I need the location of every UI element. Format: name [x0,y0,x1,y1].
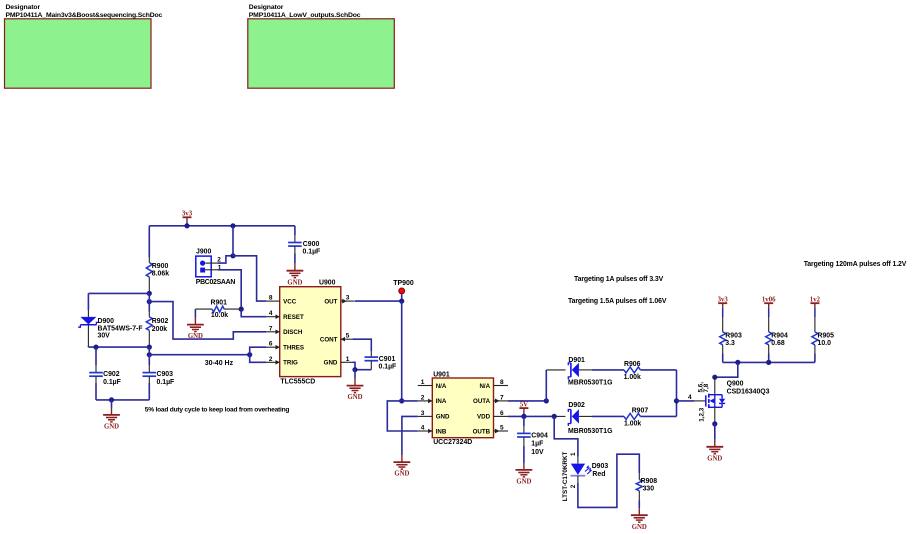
wire U901 GND [402,416,418,455]
wire R906 right [640,369,676,371]
svg-text:R906: R906 [624,361,641,368]
wire drain bus [723,361,815,363]
resistor R901 [195,308,212,310]
junction gate [674,398,679,403]
svg-text:Targeting 120mA pulses off 1.2: Targeting 120mA pulses off 1.2V [804,261,907,268]
wire VDD net [508,415,554,417]
svg-text:RESET: RESET [283,314,304,321]
svg-text:BAT54WS-7-F: BAT54WS-7-F [98,325,143,332]
svg-text:C901: C901 [379,356,396,363]
svg-text:THRES: THRES [283,345,304,352]
svg-text:3v3: 3v3 [182,211,193,218]
wire DISCH net [149,302,266,340]
power port 3v3 [186,217,188,222]
wire TP900 vertical [401,301,403,401]
svg-text:4: 4 [421,425,425,432]
svg-text:PBC02SAAN: PBC02SAAN [196,279,236,286]
wire to gate [677,400,695,402]
node TRIG branch [147,352,152,357]
junction drain [712,375,717,380]
svg-text:Q900: Q900 [727,381,744,388]
svg-text:1v2: 1v2 [810,296,821,303]
node R900 bottom [147,291,152,296]
svg-text:R902: R902 [152,318,169,325]
svg-text:GND: GND [324,360,338,367]
wire gate vertical [676,370,678,417]
svg-text:R905: R905 [818,333,835,340]
ground R908 [638,508,640,515]
wire 555 GND pin [353,362,355,369]
junction 5V [521,414,526,419]
junction C902 top [93,345,98,350]
svg-text:1.00k: 1.00k [624,420,641,427]
svg-text:UCC27324D: UCC27324D [433,439,472,446]
svg-text:INA: INA [436,398,447,405]
diode D902 MBR0530T1G [554,415,565,417]
svg-text:8: 8 [269,295,273,302]
svg-text:D902: D902 [568,402,585,409]
svg-text:1: 1 [570,452,577,456]
svg-text:MBR0530T1G: MBR0530T1G [568,380,612,387]
svg-text:GND: GND [516,479,531,486]
svg-text:N/A: N/A [479,383,490,390]
svg-text:C900: C900 [303,241,320,248]
wire C903 top [148,347,150,365]
svg-text:0.1µF: 0.1µF [303,249,321,256]
svg-text:C904: C904 [531,432,548,439]
svg-text:MBR0530T1G: MBR0530T1G [568,428,612,435]
resistor R900 [146,263,152,278]
resistor R902 [146,317,152,331]
wire D902-R907 [592,415,624,417]
wire VCC net [233,256,266,301]
svg-text:Designator: Designator [249,4,284,11]
wire INA-INB loop [387,401,418,431]
svg-text:5: 5 [346,333,350,340]
svg-text:6: 6 [269,341,273,348]
capacitor C901 [353,339,372,351]
wire OUTA net [508,400,546,402]
wire to TRIG [250,355,266,363]
svg-text:7,8: 7,8 [703,383,710,392]
ground C904 [523,463,525,470]
diode D903 LED [577,457,579,464]
wire R900 top [148,226,150,258]
svg-text:10V: 10V [531,449,544,456]
svg-text:C903: C903 [157,371,174,378]
svg-text:5% load duty cycle to keep loa: 5% load duty cycle to keep load from ove… [145,407,290,414]
connector J900 PBC02SAAN [196,256,211,277]
svg-text:3: 3 [346,295,350,302]
svg-text:10.0k: 10.0k [211,312,228,319]
svg-text:R908: R908 [641,478,658,485]
svg-text:GND: GND [394,471,409,478]
test point TP900 [401,294,403,301]
svg-text:CONT: CONT [320,337,338,344]
svg-text:PMP10411A_LowV_outputs.SchDoc: PMP10411A_LowV_outputs.SchDoc [249,12,361,19]
svg-text:7: 7 [500,394,504,401]
power port 1v06 [768,303,770,308]
svg-text:TRIG: TRIG [283,360,298,367]
svg-text:OUT: OUT [324,298,337,305]
diode D900 BAT54WS [87,310,89,317]
op-amp U900 TLC555CD [280,287,341,377]
wire INA [402,400,418,402]
svg-text:Targeting 1.5A pulses off 1.06: Targeting 1.5A pulses off 1.06V [568,298,667,305]
ground Q900 [714,424,716,440]
ground R901 [194,309,196,318]
svg-text:3v3: 3v3 [718,296,729,303]
svg-text:30V: 30V [98,333,111,340]
wire drain drop [715,362,738,377]
svg-text:3.3: 3.3 [725,340,735,347]
capacitor C900 [294,226,296,235]
svg-text:Designator: Designator [6,4,41,11]
junction OUTA [544,398,549,403]
svg-text:6: 6 [500,410,504,417]
wire bottom rail [96,399,149,401]
svg-text:1µF: 1µF [531,441,543,448]
junction TRIG/THRES split [247,352,252,357]
svg-text:5V: 5V [520,401,528,408]
svg-text:GND: GND [104,424,119,431]
svg-text:OUTA: OUTA [473,398,491,405]
svg-text:GND: GND [632,524,647,531]
capacitor C903 [143,372,157,374]
svg-text:U901: U901 [433,372,450,379]
svg-text:1: 1 [346,356,350,363]
svg-text:R901: R901 [211,299,228,306]
node DISCH branch [147,299,152,304]
svg-text:GND: GND [287,279,302,286]
svg-text:30-40 Hz: 30-40 Hz [205,360,234,367]
resistor R907 [624,413,640,419]
svg-text:0.1µF: 0.1µF [103,379,121,386]
svg-text:1: 1 [421,379,425,386]
capacitor C902 [95,347,97,365]
capacitor C904 [523,416,525,426]
junction 3v3/VCC branch [230,223,235,228]
ground bottom left [111,400,113,408]
svg-text:8.06k: 8.06k [152,271,169,278]
svg-text:DISCH: DISCH [283,329,303,336]
wire J900 pin1 [205,269,218,271]
wire R902 top [148,293,150,311]
wire LED to R908 [578,454,639,507]
svg-text:R904: R904 [771,333,788,340]
svg-text:1v06: 1v06 [762,296,776,303]
svg-text:D900: D900 [98,318,115,325]
wire D901-R906 [592,369,624,371]
node D900 bottom [147,345,152,350]
svg-text:LTST-C170KRKT: LTST-C170KRKT [562,451,569,501]
wire to D900 top [88,292,149,294]
sheet symbol S2 PMP10411A_LowV_outputs [248,19,394,88]
junction 555 gnd [352,367,357,372]
svg-text:PMP10411A_Main3v3&Boost&sequen: PMP10411A_Main3v3&Boost&sequencing.SchDo… [6,12,163,19]
svg-text:2: 2 [421,394,425,401]
svg-text:1,2,3: 1,2,3 [699,407,706,422]
junction VCC branch [230,253,235,258]
wire OUT net [355,300,402,302]
svg-text:0.1µF: 0.1µF [157,379,175,386]
junction RESET/R901 [239,307,244,312]
junction R904 [766,360,771,365]
svg-text:Red: Red [592,471,605,478]
svg-text:C902: C902 [103,371,120,378]
ground U901 [401,455,403,462]
wire J900 pin2 [205,262,218,264]
junction at 3v3 stem [184,223,189,228]
wire OUTA up [545,370,547,401]
svg-text:1.00k: 1.00k [624,374,641,381]
svg-text:4: 4 [688,394,692,401]
junction TP900 [399,299,404,304]
svg-text:D903: D903 [592,463,609,470]
wire 3v3 to VCC branch [232,226,234,256]
svg-text:GND: GND [347,394,362,401]
junction INA [399,398,404,403]
resistor R906 [624,367,640,373]
resistor R908 [638,473,640,480]
svg-text:TLC555CD: TLC555CD [280,378,315,385]
svg-text:GND: GND [436,414,450,421]
svg-text:5: 5 [500,425,504,432]
svg-text:10.0: 10.0 [818,340,832,347]
wire R907 right [640,415,676,417]
wire RESET net [241,309,266,317]
svg-text:N/A: N/A [436,383,447,390]
svg-text:8: 8 [500,379,504,386]
svg-text:2: 2 [269,356,273,363]
svg-text:4: 4 [269,310,273,317]
svg-text:J900: J900 [196,249,211,256]
junction bottom gnd [109,397,114,402]
sheet symbol S1 PMP10411A_Main3v3&Boost&sequencing [5,19,152,88]
svg-text:200k: 200k [152,326,167,333]
svg-text:GND: GND [707,455,722,462]
svg-text:U900: U900 [319,279,336,286]
svg-text:R903: R903 [725,333,742,340]
svg-text:VCC: VCC [283,298,297,305]
wire to THRES [250,347,266,355]
svg-text:INB: INB [436,428,447,435]
svg-text:GND: GND [188,333,203,340]
svg-text:3: 3 [421,410,425,417]
wire 3v3 rail [149,225,295,227]
junction drain drop [735,360,740,365]
op-amp U901 UCC27324D [432,378,493,438]
junction source [712,421,717,426]
svg-text:OUTB: OUTB [473,428,491,435]
svg-text:0.1µF: 0.1µF [379,364,397,371]
resistor R905 [814,317,816,332]
ground U900 [354,370,356,379]
svg-text:R907: R907 [632,407,649,414]
resistor R903 [722,317,724,332]
svg-text:TP900: TP900 [393,280,414,287]
svg-text:D901: D901 [568,357,585,364]
resistor R904 [768,317,770,332]
svg-text:2: 2 [570,484,577,488]
svg-text:R900: R900 [152,263,169,270]
power port 3v3 [722,303,724,308]
junction VDD/D902 [552,414,557,419]
power port 5V [523,408,525,413]
svg-text:CSD16340Q3: CSD16340Q3 [727,389,770,396]
svg-text:VDD: VDD [477,414,491,421]
svg-text:7: 7 [269,325,273,332]
svg-text:0.68: 0.68 [771,340,785,347]
wire bottom left [88,346,149,348]
diode D901 MBR0530T1G [546,369,565,371]
svg-text:Targeting 1A pulses off 3.3V: Targeting 1A pulses off 3.3V [574,276,664,283]
transistor Q900 CSD16340Q3 [714,377,716,394]
wire THRES/TRIG net [149,354,249,356]
svg-text:330: 330 [643,486,655,493]
power port 1v2 [814,303,816,308]
ground C900 [294,264,296,271]
wire 5V to LED [554,416,578,456]
